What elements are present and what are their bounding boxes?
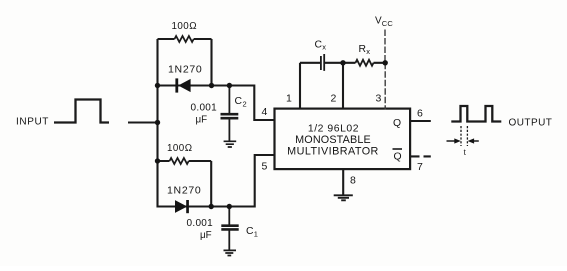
junction R2 leg/lower diode row (209, 204, 214, 209)
label C2 (235, 96, 247, 109)
power label Vcc (375, 16, 393, 29)
output pulse waveform (451, 106, 501, 122)
wire pin 7 (Qbar output) (411, 155, 431, 157)
capacitor C2 0.001uF (221, 86, 239, 141)
svg-text:MONOSTABLE: MONOSTABLE (295, 134, 371, 146)
wire left vertical bus (156, 39, 158, 208)
wire input to node A (128, 121, 158, 123)
svg-text:C: C (246, 226, 254, 237)
wire Vcc stem (384, 30, 386, 63)
wire pin 6 (Q output) (410, 120, 431, 122)
wire top loop left-to-right (158, 38, 212, 40)
svg-text:1N270: 1N270 (167, 185, 201, 197)
svg-text:7: 7 (417, 161, 423, 173)
svg-text:x: x (366, 47, 370, 56)
junction bus/R2 (155, 158, 160, 163)
svg-text:Q: Q (394, 152, 402, 163)
value label 0.001 uF (C1) (187, 218, 214, 241)
svg-text:1/2 96L02: 1/2 96L02 (308, 123, 359, 134)
diode D2 1N270 (cathode right) (175, 200, 189, 213)
svg-text:x: x (322, 43, 326, 52)
svg-text:CC: CC (382, 19, 394, 28)
svg-text:C: C (235, 96, 243, 107)
label Cx (315, 40, 327, 52)
resistor R1 100ohm (top) (175, 36, 194, 42)
wire upper diode row to pin 4 (158, 86, 274, 121)
op-amp/IC U1 1/2 96L02 box (275, 109, 411, 170)
svg-text:μF: μF (196, 115, 208, 126)
svg-text:1N270: 1N270 (168, 64, 202, 76)
input pulse waveform (54, 100, 109, 123)
wire lower diode row to pin 5 (158, 155, 274, 207)
svg-text:μF: μF (200, 230, 212, 241)
timing arrow shafts (447, 140, 479, 142)
svg-text:R: R (359, 44, 367, 55)
junction bus/D1 anode row (155, 83, 160, 88)
junction pin3/Rx/Vcc (383, 60, 388, 65)
svg-text:0.001: 0.001 (187, 218, 214, 229)
svg-text:0.001: 0.001 (191, 103, 218, 114)
wire top loop right leg (210, 39, 212, 86)
svg-text:OUTPUT: OUTPUT (509, 118, 553, 129)
wire top row Cx-Rx (300, 62, 385, 64)
svg-text:Q: Q (393, 118, 401, 129)
svg-text:4: 4 (262, 106, 268, 118)
label Qbar output (393, 149, 403, 163)
svg-text:t: t (464, 148, 467, 157)
svg-text:6: 6 (417, 108, 423, 120)
svg-text:100Ω: 100Ω (172, 21, 197, 32)
capacitor Cx (321, 54, 324, 71)
svg-text:2: 2 (331, 93, 337, 105)
junction C1 tap (227, 204, 232, 209)
ground (below C2) (224, 141, 237, 147)
timing arrowhead left (454, 138, 461, 143)
wire pin 2 (342, 63, 344, 110)
svg-text:3: 3 (376, 93, 382, 105)
wire pin 1 (299, 63, 301, 110)
diode D1 1N270 (cathode left) (175, 78, 190, 92)
svg-text:MULTIVIBRATOR: MULTIVIBRATOR (287, 145, 379, 157)
timing reference dashed lines (461, 126, 467, 146)
svg-text:8: 8 (350, 175, 356, 187)
junction pin2/Cx-Rx (340, 60, 345, 65)
resistor R2 100ohm (bottom) (170, 158, 189, 164)
svg-text:2: 2 (243, 100, 247, 109)
svg-text:1: 1 (286, 93, 292, 105)
resistor Rx (356, 60, 374, 66)
ground (pin 8) (334, 195, 353, 200)
node A junction (input/bus) (155, 120, 160, 125)
capacitor C1 0.001uF (221, 207, 238, 251)
svg-text:100Ω: 100Ω (167, 143, 192, 154)
ground (below C1) (224, 250, 237, 255)
timing arrowhead right (468, 138, 475, 143)
label Rx (359, 44, 371, 56)
junction R1 leg/diode row (209, 83, 214, 88)
svg-text:INPUT: INPUT (16, 117, 49, 128)
wire lower loop left-to-right (158, 160, 212, 162)
svg-text:C: C (315, 40, 323, 51)
wire pin 8 (342, 169, 344, 195)
label C1 (246, 226, 258, 239)
svg-text:1: 1 (254, 230, 258, 239)
wire pin 3 (384, 63, 386, 110)
junction C2 tap (227, 83, 232, 88)
wire lower loop right leg (210, 161, 212, 207)
value label 0.001 uF (C2) (191, 103, 218, 126)
svg-text:5: 5 (262, 161, 268, 173)
